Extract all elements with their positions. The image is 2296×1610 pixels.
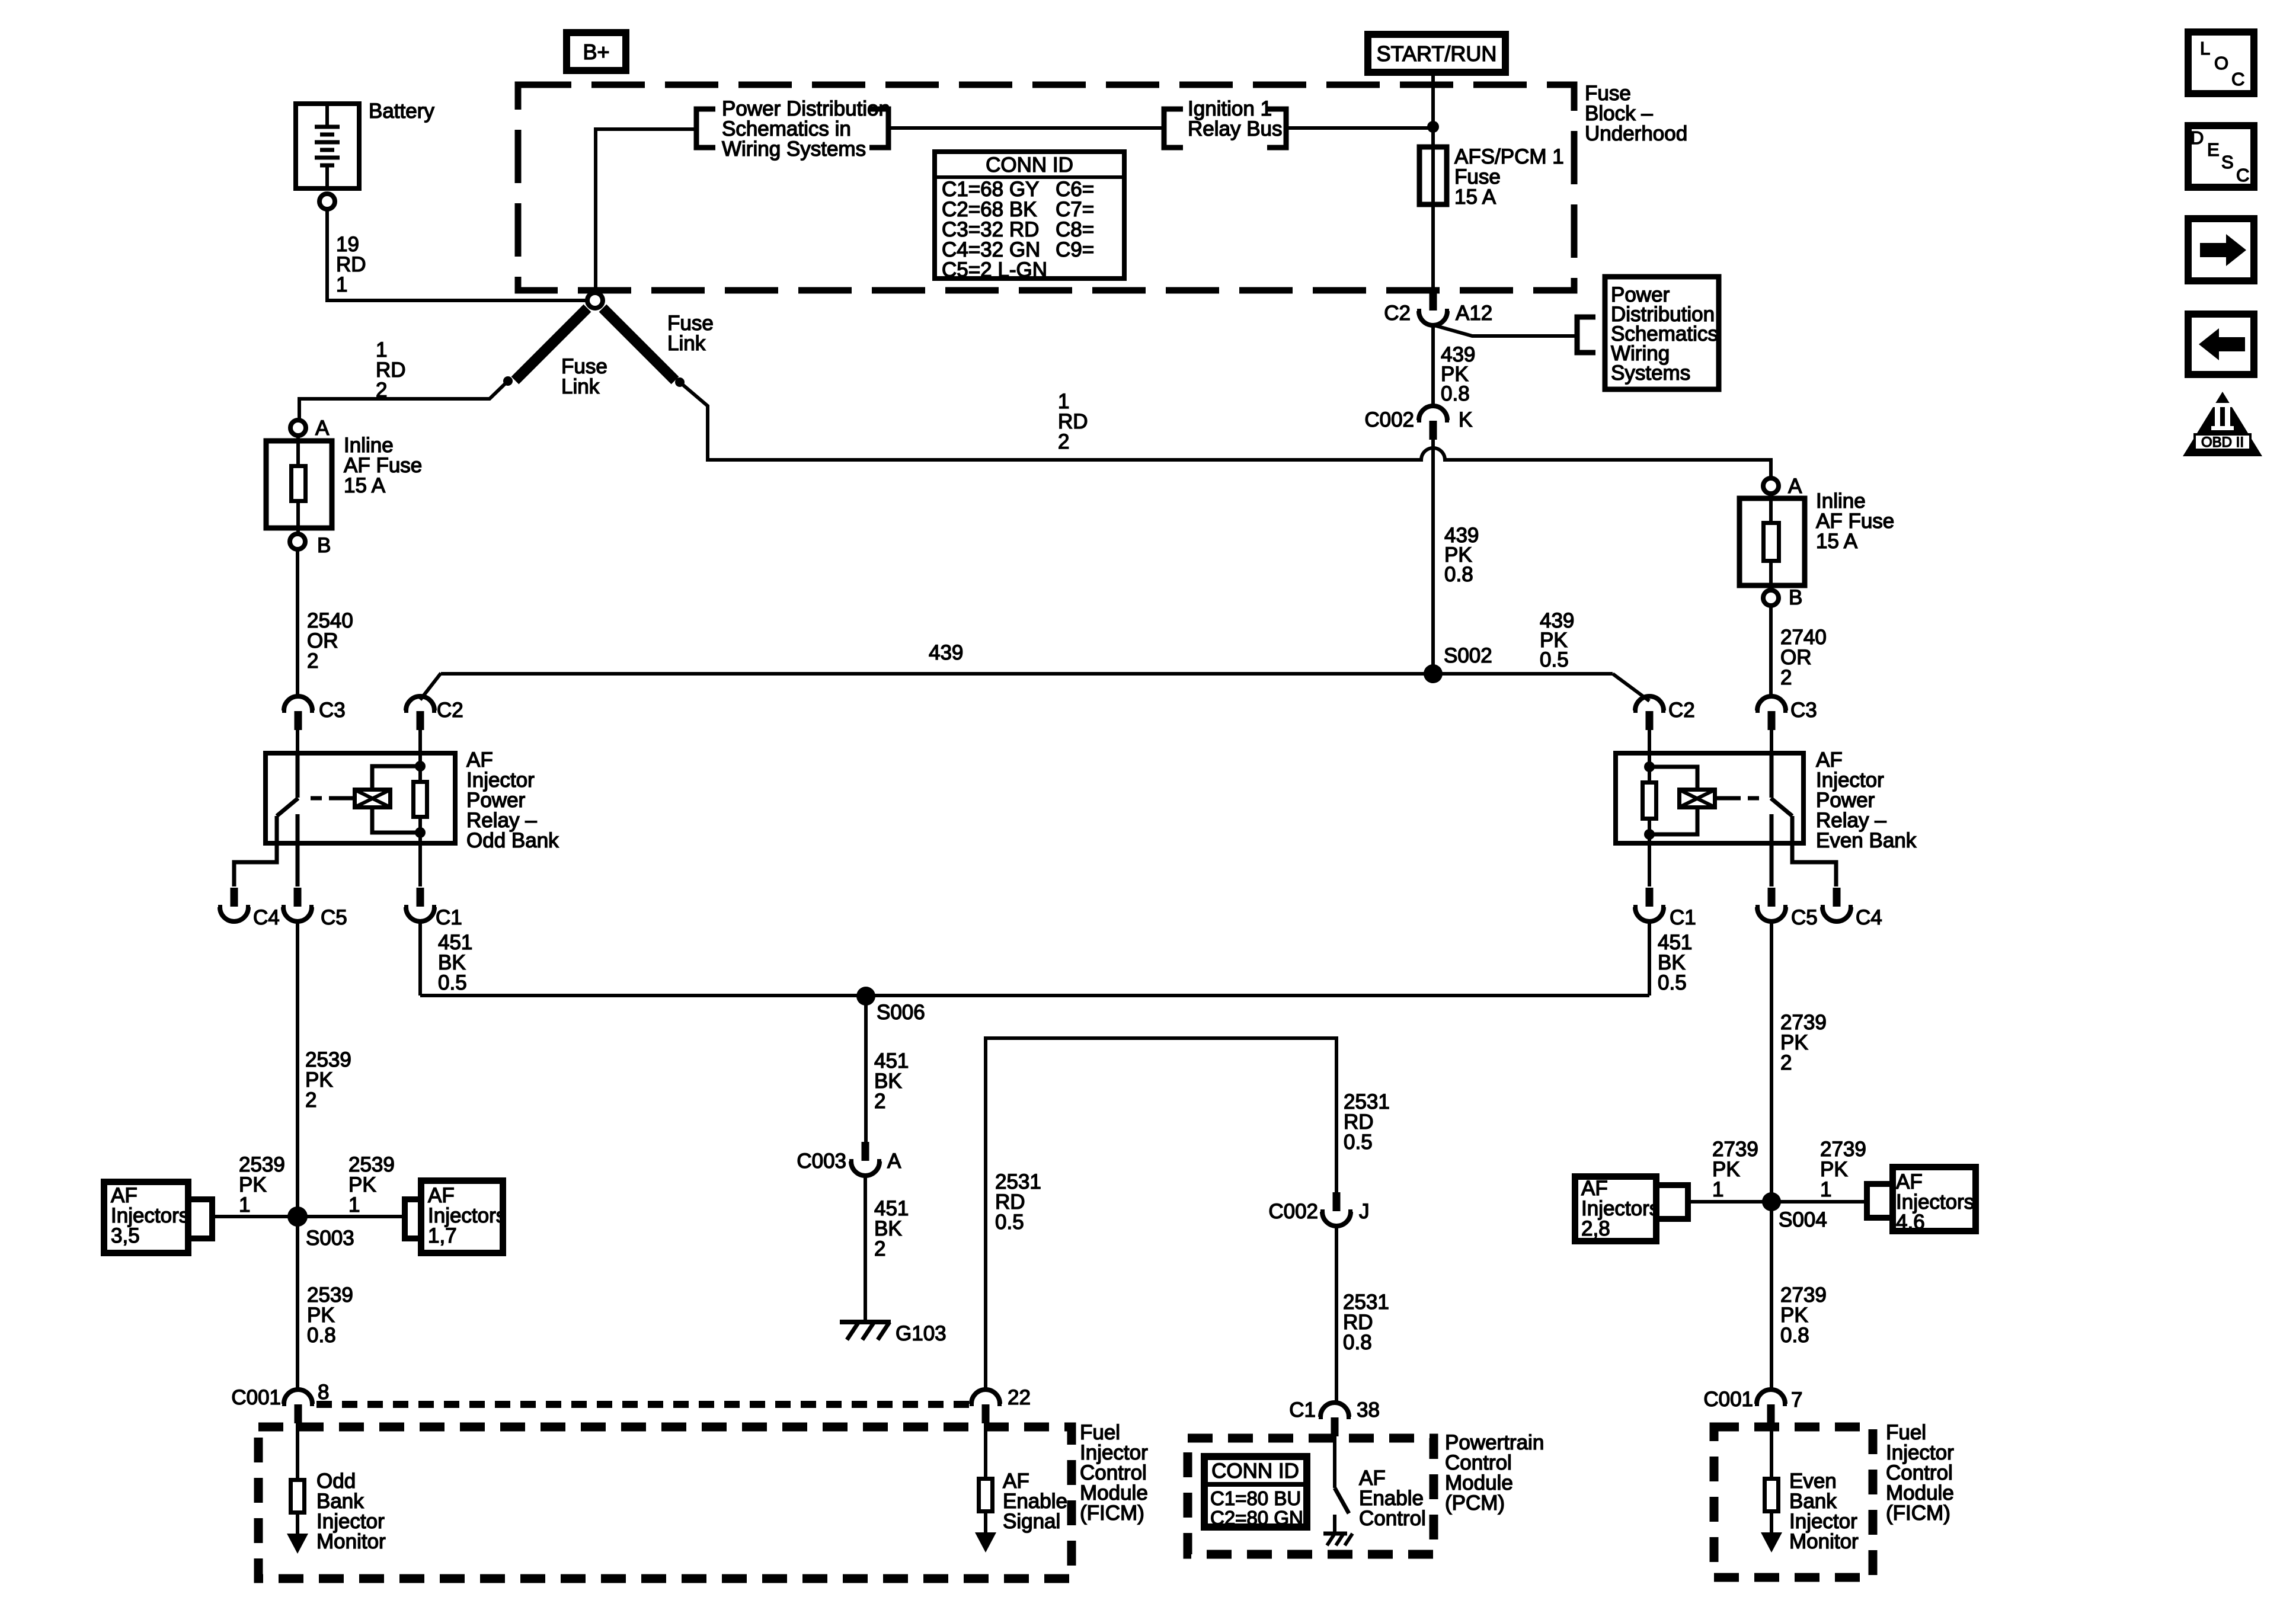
wire 2539 PK 0.8 <box>296 1217 299 1390</box>
wire C2 left into relay <box>418 730 422 753</box>
AF injectors 3,5 box <box>104 1182 190 1253</box>
svg-text:2: 2 <box>307 649 318 673</box>
connector C003 A <box>797 1142 901 1176</box>
svg-text:C5=2 L-GN: C5=2 L-GN <box>942 258 1047 281</box>
wire B+ junction up to power distribution bracket <box>596 129 694 290</box>
svg-text:2: 2 <box>305 1089 316 1112</box>
svg-text:C3: C3 <box>319 699 346 722</box>
fuse link right bar <box>603 308 675 380</box>
node junction start/run <box>1427 121 1439 133</box>
C001 harness dotted line <box>316 1401 971 1408</box>
FICM even bank dashed box <box>1714 1427 1873 1577</box>
svg-text:C1: C1 <box>436 906 462 929</box>
svg-text:C001: C001 <box>231 1386 281 1409</box>
svg-text:1,7: 1,7 <box>428 1224 457 1247</box>
connector C3 right relay <box>1755 696 1817 730</box>
svg-text:C9=: C9= <box>1056 238 1094 261</box>
svg-text:A12: A12 <box>1456 302 1492 325</box>
even bank injector monitor <box>1761 1423 1782 1553</box>
svg-text:0.5: 0.5 <box>1344 1131 1373 1154</box>
svg-text:C003: C003 <box>797 1150 846 1173</box>
power distribution schematics wiring systems box <box>1605 277 1719 389</box>
PCM dashed box <box>1188 1438 1434 1554</box>
ignition 1 relay bus right bracket <box>1267 109 1286 148</box>
svg-text:Odd Bank: Odd Bank <box>466 829 559 852</box>
svg-text:3,5: 3,5 <box>111 1224 140 1247</box>
battery terminal <box>319 194 335 209</box>
svg-text:0.8: 0.8 <box>1343 1331 1372 1354</box>
svg-text:C1: C1 <box>1289 1398 1316 1422</box>
svg-text:Link: Link <box>667 332 706 355</box>
connector C002 K <box>1364 406 1472 440</box>
svg-text:2: 2 <box>1058 430 1069 453</box>
svg-text:0.5: 0.5 <box>438 971 467 994</box>
svg-text:2: 2 <box>874 1237 885 1260</box>
svg-text:CONN ID: CONN ID <box>986 153 1073 177</box>
wire 451 BK 2 lower <box>864 1176 867 1322</box>
svg-text:2: 2 <box>1780 1051 1792 1074</box>
connector C001 pin 7 <box>1703 1388 1802 1423</box>
svg-text:(FICM): (FICM) <box>1080 1502 1144 1525</box>
inline AF fuse left terminal A <box>290 420 306 436</box>
svg-text:L: L <box>2200 38 2210 59</box>
ignition 1 relay bus left bracket <box>1164 109 1183 148</box>
B+ power label box <box>567 33 626 71</box>
wire 1 RD 2 right run <box>680 382 1771 478</box>
wire 439 PK 0.8 lower <box>1431 440 1435 669</box>
svg-text:439: 439 <box>929 641 963 664</box>
svg-text:0.5: 0.5 <box>1658 971 1687 994</box>
svg-text:Even Bank: Even Bank <box>1816 829 1917 852</box>
svg-text:C2: C2 <box>1668 699 1695 722</box>
svg-text:B: B <box>317 534 331 557</box>
svg-text:A: A <box>1788 475 1802 498</box>
fuse link right node <box>675 377 685 387</box>
svg-text:0.8: 0.8 <box>307 1324 336 1347</box>
inline AF fuse right terminal A <box>1763 478 1779 494</box>
wire 19 RD 1 battery to fuse link <box>327 209 587 300</box>
svg-text:1: 1 <box>1820 1178 1831 1201</box>
wire 451 BK 2 upper <box>864 996 868 1144</box>
svg-text:Monitor: Monitor <box>316 1530 386 1553</box>
inline AF fuse right <box>1739 494 1805 590</box>
svg-text:Battery: Battery <box>369 100 434 123</box>
connector C1 right relay <box>1633 888 1696 929</box>
wire 2539 PK 2 <box>296 921 299 1217</box>
wire 1 RD 2 left to inline fuse A <box>299 381 508 420</box>
wire ignition bus to start/run node <box>1288 126 1431 130</box>
svg-text:0.8: 0.8 <box>1780 1324 1809 1347</box>
AF injectors 1,7 bracket <box>405 1199 418 1238</box>
wire S004 row <box>1688 1200 1867 1204</box>
wire 2531 loop <box>986 1038 1336 1390</box>
wire C3 right into relay <box>1770 730 1773 753</box>
connector C5 right relay <box>1755 888 1818 929</box>
AF injectors 1,7 box <box>421 1181 507 1253</box>
svg-text:(FICM): (FICM) <box>1886 1502 1950 1525</box>
svg-text:S004: S004 <box>1779 1208 1827 1231</box>
svg-text:C2: C2 <box>437 699 463 722</box>
svg-text:C5: C5 <box>1791 906 1818 929</box>
wire C2 right into relay <box>1648 730 1651 753</box>
wire S003 row <box>212 1215 405 1218</box>
svg-text:C: C <box>2236 165 2249 185</box>
svg-text:2: 2 <box>874 1090 885 1113</box>
svg-text:E: E <box>2207 139 2220 160</box>
START/RUN power label box <box>1368 34 1505 72</box>
svg-text:Signal: Signal <box>1003 1510 1060 1533</box>
svg-text:C4: C4 <box>253 906 280 929</box>
svg-text:Underhood: Underhood <box>1585 122 1687 145</box>
svg-text:C001: C001 <box>1703 1388 1753 1411</box>
svg-text:1: 1 <box>239 1193 250 1217</box>
svg-text:K: K <box>1459 408 1472 431</box>
svg-text:0.8: 0.8 <box>1444 563 1473 586</box>
svg-text:D: D <box>2191 127 2204 148</box>
svg-text:7: 7 <box>1791 1388 1802 1411</box>
svg-text:Wiring Systems: Wiring Systems <box>722 137 866 161</box>
wire 439 PK 0.8 upper <box>1431 325 1435 406</box>
AF enable control switch <box>1335 1436 1349 1533</box>
fuse link left bar <box>515 308 587 380</box>
svg-text:15 A: 15 A <box>1816 530 1858 553</box>
power distribution schematics in wiring systems left bracket <box>696 109 715 148</box>
svg-text:A: A <box>315 417 330 440</box>
svg-text:C2=80 GN: C2=80 GN <box>1210 1507 1303 1529</box>
node S002 <box>1424 664 1443 683</box>
svg-text:0.5: 0.5 <box>1540 648 1569 671</box>
svg-text:15 A: 15 A <box>1454 185 1496 209</box>
FICM odd bank dashed box <box>258 1427 1072 1579</box>
svg-text:8: 8 <box>318 1381 329 1404</box>
svg-text:O: O <box>2214 53 2228 73</box>
wire C3 left into relay <box>296 730 299 753</box>
wire start/run drop <box>1431 76 1435 292</box>
svg-text:B+: B+ <box>583 40 609 64</box>
power distribution wiring systems bracket <box>1577 317 1595 353</box>
svg-text:4,6: 4,6 <box>1896 1211 1925 1234</box>
AF injectors 2,8 box <box>1575 1177 1660 1241</box>
connector C3 left relay <box>282 696 346 730</box>
icon arrow left <box>2188 314 2254 375</box>
odd bank injector monitor <box>287 1423 308 1554</box>
svg-text:2: 2 <box>376 379 387 402</box>
svg-text:A: A <box>887 1150 901 1173</box>
connector C2 left relay <box>404 696 463 730</box>
svg-text:1: 1 <box>336 273 347 296</box>
svg-text:0.8: 0.8 <box>1441 382 1470 405</box>
connector C4 right relay <box>1821 888 1882 929</box>
svg-text:C4: C4 <box>1856 906 1882 929</box>
inline AF fuse right terminal B <box>1763 590 1779 606</box>
AF injectors 3,5 bracket <box>191 1199 212 1238</box>
connector C5 left relay <box>282 888 347 929</box>
node S003 <box>287 1206 308 1227</box>
svg-text:CONN ID: CONN ID <box>1211 1459 1299 1483</box>
svg-text:Control: Control <box>1359 1507 1426 1530</box>
svg-text:C002: C002 <box>1364 408 1414 431</box>
connector C001 pin 8 <box>231 1381 329 1423</box>
inline AF fuse left terminal B <box>290 534 305 549</box>
svg-text:S: S <box>2221 152 2234 172</box>
svg-text:START/RUN: START/RUN <box>1377 41 1497 66</box>
connector C1 left relay <box>404 888 462 929</box>
connector C002 J <box>1268 1192 1369 1226</box>
relay K1 AF injector power relay odd bank <box>234 753 455 886</box>
wire 2540 OR 2 <box>296 549 299 696</box>
AF injectors 4,6 box <box>1893 1167 1976 1234</box>
CONN ID table underhood <box>935 152 1124 281</box>
relay K2 AF injector power relay even bank <box>1616 753 1836 886</box>
svg-text:S006: S006 <box>877 1001 925 1024</box>
fuse link left node <box>503 376 513 386</box>
svg-text:C5: C5 <box>321 906 347 929</box>
svg-text:C3: C3 <box>1790 699 1817 722</box>
wire 2739 PK 2 <box>1770 921 1773 1202</box>
fuse link junction circle <box>587 293 603 308</box>
svg-text:S002: S002 <box>1444 644 1492 667</box>
connector C2 A12 <box>1384 292 1492 325</box>
AF injectors 2,8 bracket <box>1659 1185 1688 1219</box>
connector C1 pin 38 <box>1289 1398 1380 1436</box>
ground G103 <box>840 1322 946 1345</box>
fuse block underhood dashed box <box>518 85 1574 290</box>
AF injectors 4,6 bracket <box>1867 1184 1889 1218</box>
wire 451 horizontal <box>420 994 1649 997</box>
wire 2740 OR 2 <box>1769 606 1773 696</box>
battery <box>296 104 359 191</box>
svg-text:2,8: 2,8 <box>1581 1217 1610 1240</box>
svg-text:G103: G103 <box>896 1322 946 1345</box>
wire 439 to left relay C2 <box>420 673 441 700</box>
svg-text:C1=80 BU: C1=80 BU <box>1210 1487 1301 1509</box>
svg-text:Relay Bus: Relay Bus <box>1188 117 1283 140</box>
svg-text:Systems: Systems <box>1611 361 1690 385</box>
svg-text:J: J <box>1359 1200 1370 1223</box>
svg-text:OBD II: OBD II <box>2201 434 2244 450</box>
icon OBD II triangle <box>2183 392 2262 456</box>
svg-text:B: B <box>1789 586 1802 609</box>
wire to ignition 1 relay bus <box>891 126 1162 130</box>
svg-text:15 A: 15 A <box>344 474 386 497</box>
inline AF fuse left <box>266 436 332 534</box>
wire 439 to right relay C2 <box>1613 674 1649 701</box>
svg-text:22: 22 <box>1008 1386 1031 1409</box>
wire to power distribution box bracket <box>1434 325 1575 336</box>
svg-text:C1: C1 <box>1670 906 1696 929</box>
connector C4 left relay <box>218 888 280 929</box>
svg-text:C: C <box>2231 69 2244 89</box>
PCM internal ground <box>1323 1534 1352 1545</box>
svg-text:Link: Link <box>561 375 600 398</box>
svg-text:1: 1 <box>1712 1178 1723 1201</box>
wire 2531 RD 0.8 <box>1335 1226 1338 1403</box>
svg-text:C2: C2 <box>1384 302 1411 325</box>
icon LOC <box>2188 32 2254 94</box>
svg-text:S003: S003 <box>306 1227 354 1250</box>
wire 451 BK 0.5 left <box>418 921 422 996</box>
wire 2739 PK 0.8 <box>1770 1202 1773 1390</box>
connector C2 right relay <box>1633 696 1695 730</box>
svg-text:(PCM): (PCM) <box>1445 1491 1505 1515</box>
fuse F1 AFS/PCM 1 <box>1419 147 1447 204</box>
connector pin 22 <box>970 1386 1031 1423</box>
AF enable signal <box>975 1423 996 1553</box>
svg-text:C002: C002 <box>1268 1200 1318 1223</box>
power distribution schematics in wiring systems right bracket <box>869 109 888 148</box>
svg-text:2: 2 <box>1780 666 1792 689</box>
node S004 <box>1762 1192 1781 1211</box>
icon DESC <box>2188 126 2254 187</box>
CONN ID table PCM <box>1201 1457 1310 1529</box>
svg-text:Monitor: Monitor <box>1789 1530 1859 1553</box>
svg-text:38: 38 <box>1357 1398 1380 1422</box>
wire 451 BK 0.5 right <box>1648 921 1651 996</box>
svg-text:0.5: 0.5 <box>995 1211 1024 1234</box>
icon arrow right <box>2188 219 2254 281</box>
wire 439 horizontal <box>441 672 1613 676</box>
node S006 <box>856 987 875 1006</box>
svg-text:1: 1 <box>348 1193 360 1217</box>
